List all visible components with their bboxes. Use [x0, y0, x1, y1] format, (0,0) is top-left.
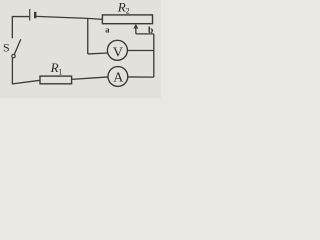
wire: bottom-left corner up to switch [11, 58, 13, 84]
svg-text:S: S [3, 40, 10, 54]
battery short plate (-) [34, 12, 36, 18]
switch blade (open) [14, 39, 20, 54]
svg-text:V: V [113, 45, 123, 60]
svg-text:a: a [105, 24, 110, 34]
wire: ammeter left terminal to R1 right terminal [72, 77, 108, 79]
wire: branch to voltmeter left terminal [88, 52, 108, 55]
rheostat R2 body [102, 15, 152, 24]
wire: right rail to ammeter right terminal [128, 76, 154, 78]
wire: slider to right rail [136, 33, 154, 35]
svg-text:b: b [148, 26, 153, 36]
wire: junction down to voltmeter branch [87, 18, 89, 54]
resistor R1 body [40, 76, 72, 84]
wire: left vertical + top-left horizontal to battery [12, 17, 29, 39]
wire: voltmeter right terminal to right rail [127, 50, 153, 52]
wire: battery to junction to R2 left terminal [36, 16, 103, 19]
battery long plate (+) [29, 9, 31, 21]
rheostat slider arrowhead [133, 24, 138, 29]
ammeter A circle [108, 67, 128, 87]
svg-text:A: A [113, 70, 124, 85]
switch pivot circle [12, 54, 15, 57]
wire: R1 left terminal to bottom-left corner [12, 80, 40, 84]
voltmeter V circle [107, 40, 127, 60]
rheostat slider arrow stem [135, 26, 137, 34]
wire: right rail vertical [153, 34, 155, 77]
